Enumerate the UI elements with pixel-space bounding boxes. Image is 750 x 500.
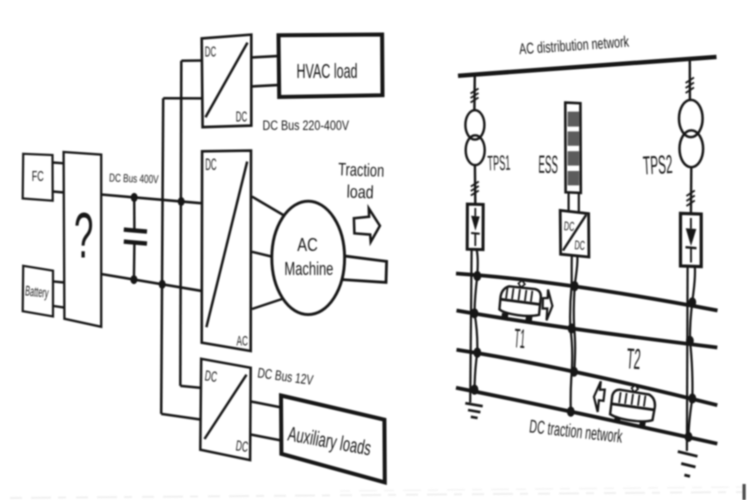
node ESS tap line1 [571,281,579,291]
svg-text:?: ? [74,200,93,272]
wire TPS1 feeder with taps [475,249,478,389]
node TPS2 tap line2 [686,336,694,346]
svg-text:DC: DC [205,45,216,61]
svg-text:AC: AC [297,235,318,255]
caption remnants bottom [10,487,745,498]
traction line 4 [456,388,717,444]
AC machine M1 [272,201,345,314]
svg-text:AC distribution network: AC distribution network [519,34,630,59]
svg-text:DC Bus 12V: DC Bus 12V [257,364,315,388]
svg-text:DC: DC [563,219,574,234]
wire phase line 3 to AC machine [252,297,288,309]
wire Battery to ? box (lower) [54,306,65,308]
wire TPS2 drop from AC bus [689,60,692,102]
breaker ticks TPS2 top [686,78,694,94]
node ESS tap line3 [570,367,578,377]
svg-text:AC: AC [237,333,248,348]
wire TPS1 rectifier return line [470,249,471,402]
svg-text:DC: DC [235,438,249,456]
svg-text:TPS1: TPS1 [487,152,511,176]
arrow T2 direction left [593,381,605,412]
svg-text:DC: DC [574,238,585,253]
node junction bus- capacitor [130,275,137,284]
svg-text:DC Bus 220-400V: DC Bus 220-400V [263,118,350,133]
rectifier box TPS2 [681,213,702,266]
wire ESS feeder left with taps [570,256,572,411]
wire rail A to bottom converter [180,386,201,388]
wire rail B vertical [161,98,163,414]
node ESS tap line4 [567,407,575,417]
wire TPS1 transformer to rectifier [474,165,477,204]
svg-text:DC: DC [236,110,247,126]
DC-DC converter ESS box [560,210,589,257]
node ESS tap line2 [568,323,576,333]
traction load block arrow [354,208,380,242]
train T2 icon [609,382,658,428]
svg-text:HVAC load: HVAC load [297,60,358,83]
wire phase line 2 to AC machine [252,252,276,258]
svg-text:TPS2: TPS2 [642,149,673,181]
converter U? box with question mark [64,152,102,327]
breaker ticks TPS1 top [471,89,479,103]
Battery box [23,266,53,317]
wire rail A horizontal to top converter [181,59,202,62]
wire ESS to converter (right) [578,193,580,213]
capacitor C1 bottom plate [124,242,147,244]
rectifier box TPS1 [467,204,483,250]
breaker ticks TPS1 bottom [471,182,479,196]
svg-text:T1: T1 [513,323,526,354]
caption remnant mark right edge [743,484,746,500]
HVAC load box [279,35,383,98]
traction line 3 [457,350,718,405]
wire TPS1 drop from AC bus [473,75,476,111]
wire ESS to converter (left) [567,193,569,211]
wire phase line 1 to AC machine [252,197,290,219]
AC distribution bus [458,57,717,76]
capacitor C1 top plate [124,230,147,232]
transformer TPS2 [679,100,703,167]
wire rail A vertical [180,61,181,386]
node TPS2 tap line4 [685,432,693,442]
wire TPS2 rectifier return line [686,266,689,451]
svg-text:Machine: Machine [284,259,333,279]
DC-DC converter bottom box [200,359,250,460]
wire rail B horizontal to top converter [163,97,202,100]
svg-text:DC: DC [204,368,218,386]
svg-text:Traction: Traction [338,159,385,181]
traction line 1 [456,274,718,311]
breaker ticks TPS2 bottom [686,191,694,207]
ESS stack [565,103,581,193]
wire Battery to ? box (upper) [53,281,64,282]
DC-DC converter top box [202,35,252,128]
wire bottom converter to auxiliary loads (upper) [251,402,282,408]
node junction bus+ rail A [178,197,185,206]
wire ESS feeder right with taps [574,257,578,372]
capacitor C1 top lead [133,197,136,228]
shaft to traction load [342,256,386,283]
node TPS2 tap line1 [688,297,696,307]
transformer TPS1 [465,110,484,165]
node TPS1 tap line2 [471,308,479,318]
node TPS1 tap line3 [473,348,481,358]
wire DC bus 400V positive rail [101,195,201,204]
Traction load label [338,159,385,202]
node junction bus+ capacitor [131,193,138,202]
FC box [23,154,53,201]
svg-text:DC Bus 400V: DC Bus 400V [109,173,159,187]
Auxiliary loads box [281,396,385,483]
wire DC bus 400V negative rail [101,274,201,291]
node TPS1 tap line4 [471,385,479,395]
wire TPS2 transformer to rectifier [690,167,693,214]
traction line 2 [457,311,718,348]
svg-text:Battery: Battery [24,282,49,300]
wire FC to ? box (upper) [53,161,64,164]
node junction bus- rail B [159,280,166,289]
wire top converter to HVAC (lower) [251,85,278,86]
wire FC to ? box (lower) [53,192,65,193]
svg-text:load: load [346,182,374,203]
train T1 icon [498,278,544,323]
svg-text:ESS: ESS [538,151,558,179]
wire TPS2 feeder with taps [689,266,696,437]
capacitor C1 bottom lead [133,244,136,280]
arrow T1 direction right [541,289,553,320]
wire rail B to bottom converter [161,414,200,420]
ground TPS2 [678,452,698,477]
node TPS1 tap line1 [473,271,481,281]
node TPS2 tap line3 [688,393,696,403]
ground TPS1 [465,403,482,418]
DC-AC converter main box [202,151,251,351]
svg-text:T2: T2 [626,343,642,376]
wire top converter to HVAC (upper) [251,56,278,57]
svg-text:DC: DC [205,155,216,174]
wire bottom converter to auxiliary loads (lower) [251,435,282,441]
svg-text:FC: FC [32,169,44,185]
